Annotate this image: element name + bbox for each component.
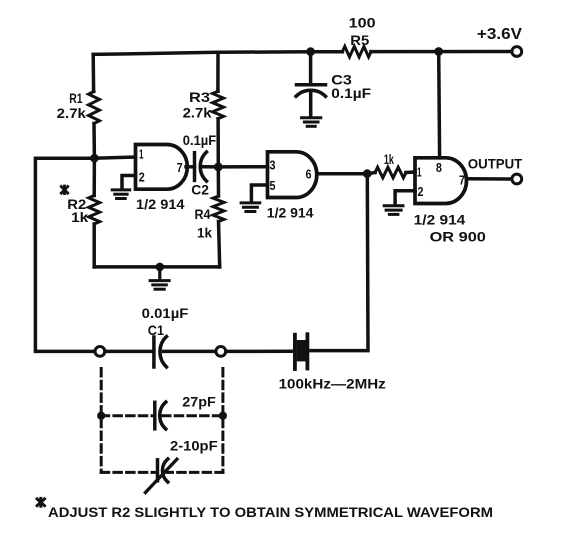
- svg-text:2: 2: [418, 184, 424, 199]
- label +3.6V: [477, 26, 523, 43]
- capacitor trimmer 2-10pF: [145, 459, 177, 493]
- svg-text:100kHz—2MHz: 100kHz—2MHz: [279, 376, 386, 391]
- junction dot at U3 supply: [434, 47, 443, 56]
- svg-text:R5: R5: [350, 32, 369, 48]
- label U1 1/2 914: [136, 196, 185, 212]
- label U2 1/2 914: [267, 205, 314, 221]
- label C3: [331, 72, 352, 88]
- junction dot C3 at rail: [306, 47, 315, 56]
- op-amp gate U3 1/2 914 OR 900: [415, 158, 466, 204]
- pin 2 label U3: [418, 184, 424, 199]
- label C3 value 0.1uF: [331, 85, 371, 101]
- svg-text:6: 6: [306, 167, 312, 182]
- pin 6 label U2: [306, 167, 312, 182]
- node A junction dot: [90, 154, 99, 163]
- svg-text:7: 7: [177, 160, 183, 175]
- svg-text:0.1µF: 0.1µF: [331, 85, 371, 101]
- svg-text:1k: 1k: [71, 209, 88, 225]
- terminal C1 left: [95, 347, 105, 357]
- label R2: [67, 196, 86, 212]
- label R4 value 1k: [197, 224, 212, 240]
- resistor R4: [213, 196, 224, 222]
- label 2-10pF: [170, 438, 218, 454]
- svg-text:2.7k: 2.7k: [183, 104, 212, 120]
- resistor R1: [89, 91, 100, 123]
- resistor R2: [89, 196, 100, 225]
- wire node A to U1 pin 1: [94, 157, 135, 158]
- label OUTPUT: [468, 156, 523, 172]
- svg-text:1k: 1k: [384, 151, 394, 167]
- ground at C3: [302, 118, 321, 127]
- wire node C to 1k resistor: [367, 173, 375, 174]
- svg-text:OR 900: OR 900: [430, 228, 487, 244]
- wire feedback node A to C1 left terminal: [35, 158, 94, 351]
- wire bottom ground rail: [94, 265, 220, 269]
- label U3 1/2 914: [414, 212, 466, 228]
- wire U3 output to OUTPUT terminal: [467, 177, 512, 181]
- pin 2 label U1: [139, 170, 145, 185]
- svg-text:2: 2: [139, 170, 145, 185]
- node C junction dot: [363, 169, 372, 178]
- label R5 value 100: [349, 15, 376, 31]
- wire U1 output to C2: [186, 165, 195, 169]
- label R5: [350, 32, 369, 48]
- ground below rail: [150, 267, 169, 289]
- label R1 value 2.7k: [57, 105, 86, 121]
- wire rail to R3: [216, 52, 220, 91]
- node B junction dot: [214, 163, 223, 172]
- terminal +3.6V: [512, 47, 522, 57]
- wire crystal to node C: [307, 174, 368, 351]
- pin 7 label U1: [177, 160, 183, 175]
- wire U2 output to node C: [317, 172, 367, 176]
- label R3: [189, 89, 210, 105]
- capacitor C2: [195, 152, 207, 181]
- crystal 100kHz-2MHz: [295, 334, 308, 369]
- svg-text:1: 1: [417, 165, 422, 180]
- svg-text:2-10pF: 2-10pF: [170, 438, 218, 454]
- svg-text:100: 100: [349, 15, 376, 31]
- svg-text:C1: C1: [148, 322, 164, 338]
- svg-text:2.7k: 2.7k: [57, 105, 86, 121]
- label C1 value 0.01uF: [142, 305, 189, 321]
- wire U3 pin 2 to ground: [395, 191, 415, 204]
- wire 1k resistor to U3 pin 1: [406, 170, 415, 174]
- pin 3 label U2: [270, 158, 276, 173]
- svg-text:1/2 914: 1/2 914: [136, 196, 185, 212]
- op-amp gate U2 1/2 914: [268, 152, 317, 198]
- ground at U2 pin 5: [241, 203, 260, 212]
- label R3 value 2.7k: [183, 104, 212, 120]
- wire C1 to right terminal: [164, 350, 216, 354]
- svg-text:1k: 1k: [197, 224, 212, 240]
- label 1k: [384, 151, 394, 167]
- svg-text:7: 7: [459, 173, 465, 188]
- svg-text:1: 1: [139, 147, 144, 162]
- pin 1 label U1: [139, 147, 144, 162]
- wire rail to R1: [91, 54, 95, 91]
- capacitor C1: [154, 337, 167, 368]
- label R1: [69, 90, 82, 106]
- pin 1 label U3: [417, 165, 422, 180]
- svg-text:1/2 914: 1/2 914: [267, 205, 314, 221]
- label crystal 100kHz-2MHz: [279, 376, 386, 391]
- wire U2 pin 5 to ground: [251, 185, 267, 201]
- label C2 value 0.1uF: [183, 132, 217, 148]
- wire top supply rail: [93, 52, 511, 55]
- pin 8 label U3: [436, 160, 442, 175]
- capacitor 27pF: [155, 402, 166, 429]
- svg-text:+3.6V: +3.6V: [477, 26, 523, 43]
- label 27pF: [182, 393, 216, 409]
- svg-text:0.1µF: 0.1µF: [183, 132, 217, 148]
- wire R3 to node B: [216, 119, 220, 167]
- wire R4 to bottom ground rail: [219, 222, 220, 267]
- junction dot 27pF branch right: [219, 412, 227, 420]
- svg-text:R4: R4: [195, 206, 211, 222]
- terminal C1 right: [216, 347, 226, 357]
- op-amp gate U1 1/2 914: [136, 145, 188, 190]
- pin 5 label U2: [270, 178, 276, 193]
- ground at U1 pin 2: [112, 190, 130, 199]
- svg-text:C2: C2: [191, 182, 209, 198]
- resistor 1k: [375, 167, 406, 178]
- svg-text:OUTPUT: OUTPUT: [468, 156, 523, 172]
- asterisk at R2: [60, 185, 68, 195]
- svg-text:1/2 914: 1/2 914: [414, 212, 466, 228]
- svg-text:27pF: 27pF: [182, 393, 216, 409]
- note ADJUST R2: [48, 505, 493, 520]
- wire R1 to node A: [92, 124, 96, 159]
- svg-text:ADJUST R2 SLIGHTLY TO OBTAIN S: ADJUST R2 SLIGHTLY TO OBTAIN SYMMETRICAL…: [48, 505, 493, 520]
- dashed wire 27pF branch: [101, 414, 223, 417]
- label C2: [191, 182, 209, 198]
- note asterisk: [36, 497, 46, 508]
- terminal OUTPUT: [512, 174, 522, 184]
- wire node A to R2: [92, 158, 96, 195]
- svg-text:R3: R3: [189, 89, 210, 105]
- capacitor C3: [296, 52, 326, 115]
- wire R2 to bottom ground rail: [92, 224, 96, 267]
- label U3 OR 900: [430, 228, 487, 244]
- wire C1 left terminal to C1: [105, 350, 154, 354]
- label C1: [148, 322, 164, 338]
- junction dot 27pF branch left: [97, 412, 105, 420]
- dashed wire left vertical of trim box: [100, 369, 103, 473]
- label R4: [195, 206, 211, 222]
- wire U1 pin 2 to ground: [122, 176, 136, 189]
- svg-text:0.01µF: 0.01µF: [142, 305, 189, 321]
- pin 7 label U3: [459, 173, 465, 188]
- wire node B to U2 pin 3: [218, 165, 267, 169]
- svg-text:3: 3: [270, 158, 276, 173]
- junction dot on ground rail: [156, 263, 165, 272]
- resistor R5: [342, 46, 371, 57]
- wire node B to R4: [217, 167, 221, 196]
- wire C2 to node B: [204, 165, 219, 169]
- wire right terminal to crystal: [226, 349, 295, 353]
- resistor R3: [213, 91, 224, 119]
- svg-text:5: 5: [270, 178, 276, 193]
- label R2 value 1k: [71, 209, 88, 225]
- ground at U3 pin 2: [384, 206, 403, 215]
- dashed wire right vertical of trim box: [221, 369, 224, 473]
- svg-text:8: 8: [436, 160, 442, 175]
- wire rail to U3 pin 8: [437, 52, 441, 158]
- svg-text:R1: R1: [69, 90, 82, 106]
- dashed wire trimmer branch: [101, 471, 223, 474]
